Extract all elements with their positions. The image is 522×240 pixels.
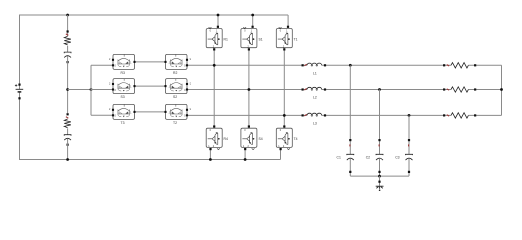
svg-text:L2: L2 xyxy=(313,96,317,100)
svg-text:R3: R3 xyxy=(121,71,125,75)
node: load star point xyxy=(500,88,503,91)
IGBT module R4 (bottom switch, leg R) xyxy=(206,125,222,150)
node: C1 tap xyxy=(349,64,352,67)
svg-text:T1: T1 xyxy=(294,37,298,41)
wire: phase R output row xyxy=(188,64,502,66)
wire: feeder to T3 input xyxy=(91,114,113,116)
wire: R3 to R2 link xyxy=(135,61,165,63)
wire: feeder vertical xyxy=(90,65,92,115)
wire: C1 drop xyxy=(349,65,351,154)
wire: phase T output row xyxy=(188,114,502,116)
wire: C2 drop xyxy=(379,90,381,155)
wire: DC negative bottom rail xyxy=(20,92,281,160)
inductor L1 xyxy=(302,63,327,66)
resistor: load phase T xyxy=(443,113,476,118)
bidirectional switch module T3 xyxy=(109,104,136,119)
wire xyxy=(67,128,69,134)
node: bottom rail junction xyxy=(66,158,69,161)
wire xyxy=(67,46,69,52)
node: top rail leg S junction xyxy=(251,14,254,17)
svg-text:R4: R4 xyxy=(224,137,228,141)
wire: DC positive top rail xyxy=(20,15,289,89)
node: DC midpoint xyxy=(66,88,69,91)
bidirectional switch module S2 xyxy=(164,79,191,94)
node: bottom rail leg S junction xyxy=(244,158,247,161)
IGBT module T4 (bottom switch, leg T) xyxy=(276,125,292,150)
wire: capacitor star bus xyxy=(350,175,409,177)
svg-text:T4: T4 xyxy=(294,137,298,141)
capacitor: upper DC-link cap xyxy=(64,52,71,63)
node: feeder fork xyxy=(90,88,93,91)
bidirectional switch module S3 xyxy=(109,79,136,94)
wire: top rail to upper ESR xyxy=(67,15,69,36)
svg-text:T2: T2 xyxy=(173,121,177,125)
node: star bus center xyxy=(378,175,381,178)
svg-text:C1: C1 xyxy=(337,155,341,159)
wire: lower cap to bottom rail xyxy=(67,139,69,160)
capacitor: lower DC-link cap xyxy=(64,135,71,146)
wire: feeder to S3 input xyxy=(91,89,113,91)
node: top rail / DC-link branch junction xyxy=(66,14,69,17)
wire: C3 drop xyxy=(408,115,410,154)
svg-text:S4: S4 xyxy=(259,137,263,141)
svg-text:L1: L1 xyxy=(313,71,317,75)
wire: leg T vertical bus xyxy=(281,15,289,160)
node: C2 tap xyxy=(378,88,381,91)
wire: star bus to ground xyxy=(379,176,381,186)
wire: leg S vertical bus xyxy=(245,15,253,160)
inductor L2 xyxy=(302,87,327,90)
resistor: load phase R xyxy=(443,63,476,68)
svg-text:R2: R2 xyxy=(173,71,177,75)
bidirectional switch module R3 xyxy=(109,54,136,69)
svg-text:C2: C2 xyxy=(366,155,370,159)
node: bottom rail leg R junction xyxy=(209,158,212,161)
IGBT module R1 (top switch, leg R) xyxy=(206,26,222,51)
bidirectional switch module R2 xyxy=(164,54,191,69)
IGBT module T1 (top switch, leg T) xyxy=(276,26,292,51)
node: C3 tap xyxy=(408,114,411,117)
wire: load star vertical xyxy=(501,65,503,115)
capacitor C3 xyxy=(406,139,413,176)
node: leg S phase tap xyxy=(248,88,251,91)
svg-text:S3: S3 xyxy=(121,95,125,99)
svg-text:R1: R1 xyxy=(224,37,228,41)
IGBT module S1 (top switch, leg S) xyxy=(241,26,257,51)
resistor: lower DC-link damping R xyxy=(64,113,71,128)
svg-text:S1: S1 xyxy=(259,37,263,41)
ground xyxy=(376,186,384,191)
DC voltage source V_dc xyxy=(15,84,23,100)
wire: midpoint feeder horizontal xyxy=(68,89,91,91)
svg-text:T3: T3 xyxy=(121,121,125,125)
inductor L3 xyxy=(302,113,327,116)
wire: upper cap to midpoint xyxy=(67,56,69,113)
svg-text:L3: L3 xyxy=(313,121,317,125)
capacitor C1 xyxy=(347,139,354,176)
node: top rail leg R junction xyxy=(217,14,220,17)
resistor: load phase S xyxy=(443,87,476,92)
wire: S3 to S2 link xyxy=(135,85,165,87)
capacitor C2 xyxy=(376,139,383,176)
wire: phase S output row xyxy=(188,89,502,91)
svg-text:S2: S2 xyxy=(173,95,177,99)
wire: feeder to R3 input xyxy=(91,64,113,66)
node: leg R phase tap xyxy=(213,64,216,67)
IGBT module S4 (bottom switch, leg S) xyxy=(241,125,257,150)
node: leg T phase tap xyxy=(283,114,286,117)
svg-text:C3: C3 xyxy=(395,155,399,159)
wire: leg R vertical bus xyxy=(210,15,218,160)
bidirectional switch module T2 xyxy=(164,104,191,119)
resistor: upper DC-link damping R xyxy=(64,30,71,45)
wire: T3 to T2 link xyxy=(135,111,165,113)
